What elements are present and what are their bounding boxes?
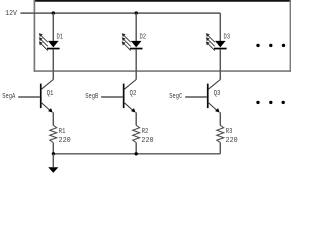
transistor Q1 collector lead xyxy=(42,80,54,90)
LED D2 triangle xyxy=(131,41,142,48)
transistor Q1 base bar xyxy=(40,84,42,109)
wire D3 cathode to Q3 collector xyxy=(219,49,221,79)
node junction rail to D2 xyxy=(135,11,138,14)
transistor Q3 collector lead xyxy=(209,80,221,90)
wire rail to D2 anode xyxy=(135,13,137,41)
transistor Q1 emitter arrowhead xyxy=(48,108,53,113)
LED D1 cathode bar xyxy=(47,48,60,50)
svg-text:Q2: Q2 xyxy=(130,90,137,98)
svg-text:SegB: SegB xyxy=(85,93,98,101)
display box left edge xyxy=(33,0,35,72)
svg-text:D1: D1 xyxy=(57,33,64,41)
transistor Q2 base bar xyxy=(123,84,125,109)
LED D3 triangle xyxy=(215,41,226,48)
wire R1 to ground rail xyxy=(52,143,54,154)
LED D1 triangle xyxy=(48,41,59,48)
transistor Q3 emitter lead xyxy=(209,103,219,112)
svg-text:SegA: SegA xyxy=(2,93,15,101)
resistor R3 xyxy=(217,125,224,142)
svg-text:D2: D2 xyxy=(139,33,146,41)
svg-text:12V: 12V xyxy=(5,10,17,18)
node junction ground rail R1 xyxy=(52,152,55,155)
wire Q3 emitter to R3 xyxy=(219,112,221,125)
transistor Q3 base bar xyxy=(207,84,209,109)
wire to ground symbol xyxy=(52,154,54,167)
wire rail to D3 anode xyxy=(219,13,221,41)
wire 12V supply rail xyxy=(20,12,220,14)
continuation dots top row xyxy=(256,44,259,47)
svg-text:220: 220 xyxy=(226,137,239,145)
svg-text:R2: R2 xyxy=(142,128,149,136)
wire ground rail xyxy=(53,153,220,155)
wire D1 cathode to Q1 collector xyxy=(52,49,54,79)
display box right edge xyxy=(289,0,291,72)
LED D2 light arrows xyxy=(122,34,130,51)
resistor R1 xyxy=(50,125,57,142)
transistor Q2 emitter lead xyxy=(125,103,135,112)
resistor R2 xyxy=(133,125,140,142)
transistor Q3 emitter arrowhead xyxy=(215,108,220,113)
svg-text:Q3: Q3 xyxy=(214,90,221,98)
display box bottom edge xyxy=(34,70,291,72)
wire Q1 emitter to R1 xyxy=(52,112,54,125)
node junction ground rail R2 xyxy=(135,152,138,155)
display box top edge xyxy=(34,0,291,2)
wire Q2 emitter to R2 xyxy=(135,112,137,125)
LED D3 cathode bar xyxy=(214,48,227,50)
wire R2 to ground rail xyxy=(135,143,137,154)
LED D1 light arrows xyxy=(39,34,47,51)
wire SegC to Q3 base xyxy=(185,96,207,98)
wire rail to D1 anode xyxy=(52,13,54,41)
wire SegB to Q2 base xyxy=(101,96,123,98)
continuation dots bottom row xyxy=(256,101,259,104)
svg-text:R1: R1 xyxy=(59,128,66,136)
transistor Q2 emitter arrowhead xyxy=(131,108,136,113)
wire SegA to Q1 base xyxy=(18,96,40,98)
svg-text:220: 220 xyxy=(59,137,72,145)
svg-text:D3: D3 xyxy=(224,33,231,41)
ground xyxy=(48,167,58,173)
svg-text:R3: R3 xyxy=(226,128,233,136)
LED D3 light arrows xyxy=(206,34,214,51)
node junction rail to D1 xyxy=(52,11,55,14)
svg-text:Q1: Q1 xyxy=(47,90,54,98)
transistor Q2 collector lead xyxy=(125,80,137,90)
wire R3 to ground rail xyxy=(219,143,221,154)
transistor Q1 emitter lead xyxy=(42,103,52,112)
svg-text:SegC: SegC xyxy=(169,93,182,101)
LED D2 cathode bar xyxy=(130,48,143,50)
wire D2 cathode to Q2 collector xyxy=(135,49,137,79)
svg-text:220: 220 xyxy=(141,137,154,145)
